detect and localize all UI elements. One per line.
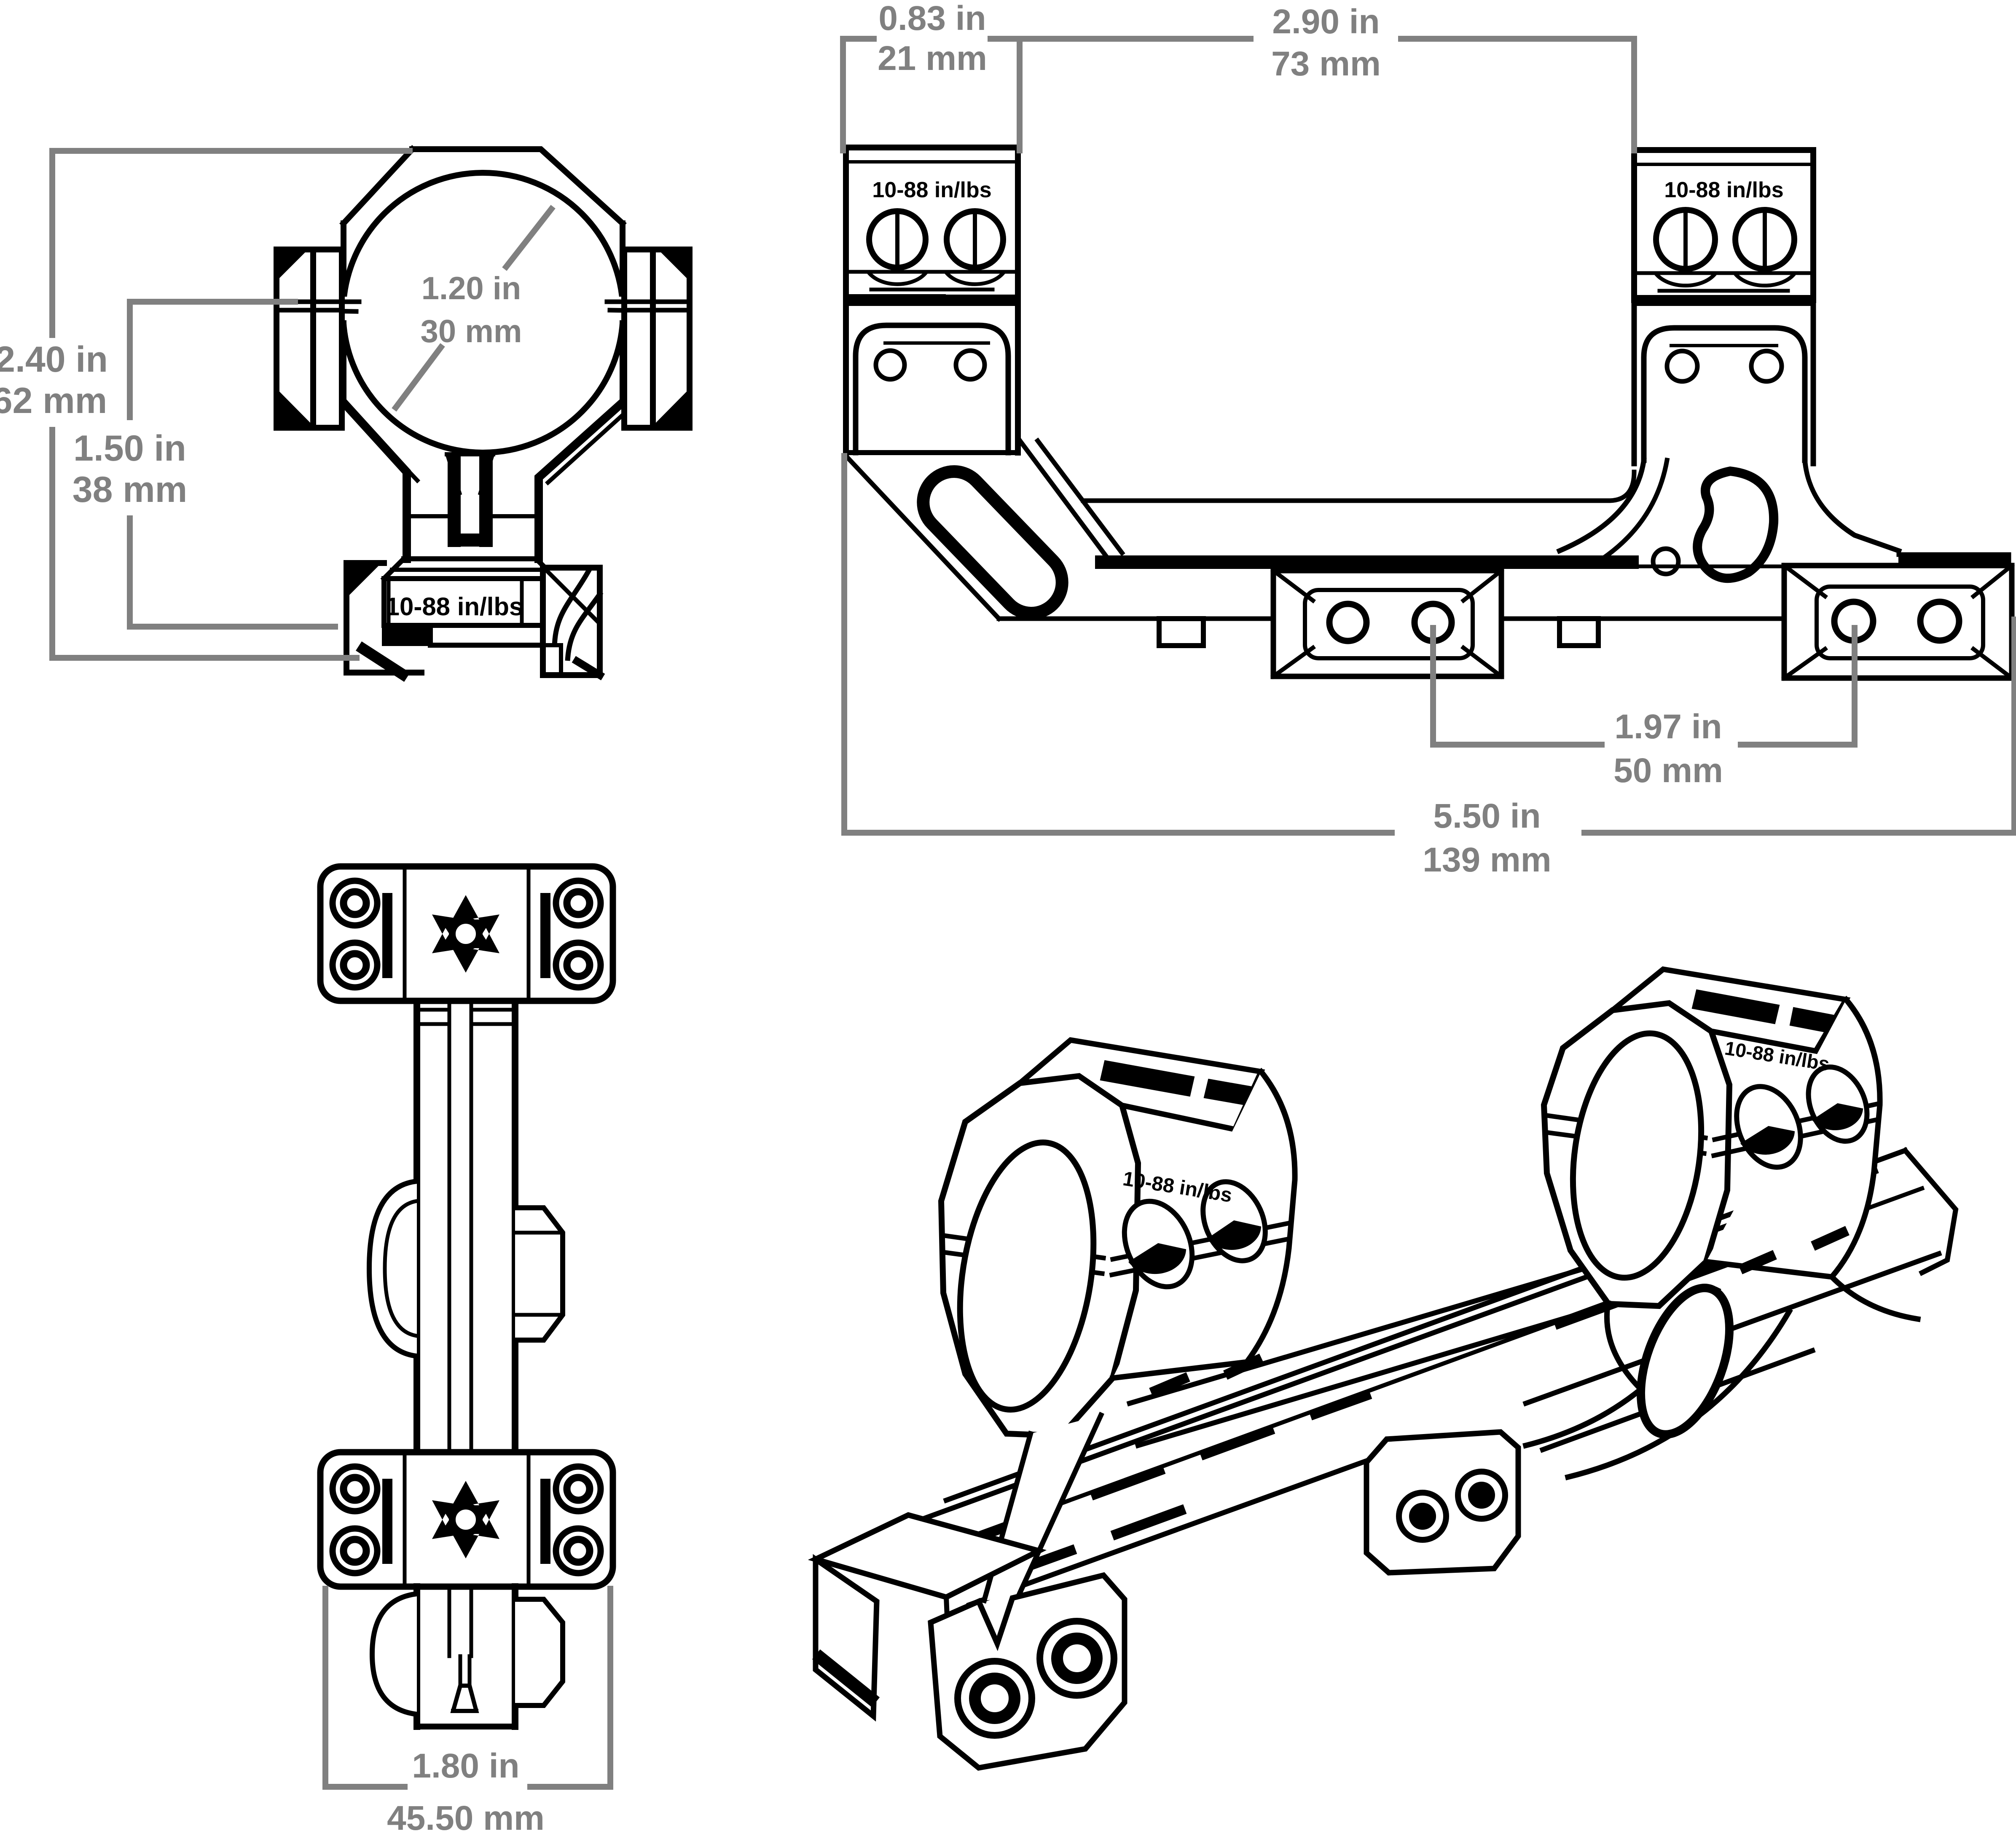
svg-text:62 mm: 62 mm bbox=[0, 381, 107, 421]
svg-text:21 mm: 21 mm bbox=[878, 39, 987, 78]
svg-text:1.80 in: 1.80 in bbox=[412, 1747, 519, 1785]
svg-text:1.50 in: 1.50 in bbox=[73, 428, 186, 469]
svg-text:10-88 in/lbs: 10-88 in/lbs bbox=[872, 178, 991, 202]
svg-text:73 mm: 73 mm bbox=[1271, 45, 1381, 83]
svg-text:10-88 in/lbs: 10-88 in/lbs bbox=[386, 593, 523, 621]
svg-text:2.90 in: 2.90 in bbox=[1272, 3, 1380, 41]
svg-text:139 mm: 139 mm bbox=[1423, 841, 1551, 879]
svg-text:0.83 in: 0.83 in bbox=[878, 0, 986, 38]
svg-text:30 mm: 30 mm bbox=[421, 314, 522, 349]
svg-text:38 mm: 38 mm bbox=[72, 469, 188, 510]
svg-text:1.20 in: 1.20 in bbox=[421, 271, 521, 306]
svg-text:1.97 in: 1.97 in bbox=[1614, 708, 1722, 746]
svg-text:2.40 in: 2.40 in bbox=[0, 339, 108, 380]
svg-text:10-88 in/lbs: 10-88 in/lbs bbox=[1664, 178, 1783, 202]
svg-text:5.50 in: 5.50 in bbox=[1433, 797, 1541, 835]
svg-text:45.50 mm: 45.50 mm bbox=[387, 1799, 545, 1834]
svg-text:50 mm: 50 mm bbox=[1613, 751, 1723, 790]
